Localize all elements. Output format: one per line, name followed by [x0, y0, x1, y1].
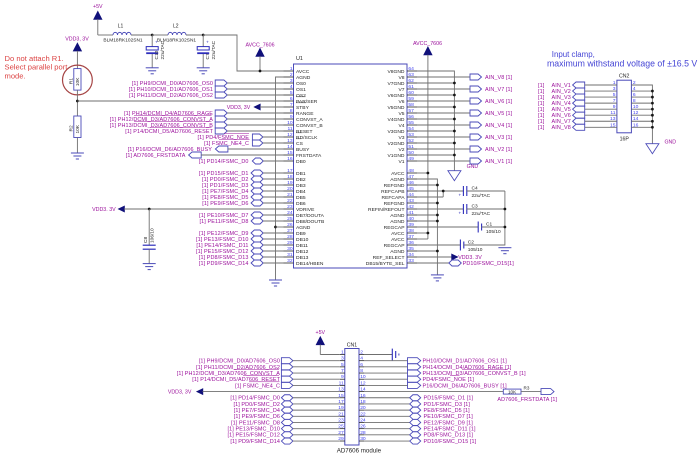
node junction GND rail row 155	[453, 154, 456, 157]
svg-text:DB0: DB0	[296, 159, 306, 165]
svg-text:V7GND: V7GND	[387, 81, 404, 87]
wire VxGND pin to GND rail (row 83)	[417, 82, 454, 84]
node junction cap rail C1	[504, 226, 507, 229]
svg-text:RD/SCLK: RD/SCLK	[296, 135, 318, 141]
annotation input clamp note	[547, 50, 697, 68]
svg-text:V4GND: V4GND	[387, 117, 404, 123]
U1 left pins section 1 names numbers stubs	[284, 66, 324, 165]
svg-text:PD10/FSMC_D15 [1]: PD10/FSMC_D15 [1]	[424, 439, 477, 445]
port PD10/FSMC_D15 (CN1 right side)	[364, 438, 477, 445]
svg-text:38: 38	[408, 228, 414, 234]
op-amp U1 AD7606 body	[294, 56, 408, 268]
svg-text:15: 15	[610, 122, 616, 128]
node junction CN2 GND rail pin 16	[651, 126, 654, 129]
node junction AVCC rail pin 38	[427, 232, 430, 235]
svg-text:[1] PE15/FSMC_D12: [1] PE15/FSMC_D12	[228, 433, 280, 439]
svg-text:DB10: DB10	[296, 237, 309, 243]
svg-text:52: 52	[408, 138, 414, 144]
svg-text:5: 5	[290, 90, 293, 96]
svg-text:56: 56	[408, 114, 414, 120]
svg-text:C3: C3	[472, 203, 478, 209]
port AD7606_FRSTDATA	[126, 152, 284, 159]
wire U1 pin 2 AGND to left ground rail	[276, 77, 284, 280]
svg-text:14: 14	[287, 144, 293, 150]
svg-text:V2GND: V2GND	[387, 141, 404, 147]
svg-text:L2: L2	[173, 24, 179, 30]
port PD10/FSMC_D15 (U1 side)	[417, 260, 514, 267]
power VDD3, 3V at CN1 pin 13	[168, 389, 340, 396]
wire CN2 right pins to GND rail	[631, 80, 652, 144]
ground at C8	[143, 264, 156, 270]
wire REFCAPB/REFCAPA tie to C4	[417, 191, 463, 197]
svg-text:4: 4	[633, 86, 636, 92]
svg-text:3: 3	[290, 78, 293, 84]
svg-text:DB9: DB9	[296, 231, 306, 237]
svg-text:41: 41	[408, 210, 414, 216]
wire right AGND rail (pins 47 46 43 41 40 35)	[417, 179, 437, 275]
CN1 pin stubs and numbers	[338, 350, 366, 443]
svg-text:FRSTDATA: FRSTDATA	[296, 153, 322, 159]
port AIN_V1 (CN2 side)	[538, 80, 617, 89]
inductor L1	[103, 24, 143, 44]
svg-text:VDRIVE: VDRIVE	[296, 207, 315, 213]
svg-text:53: 53	[408, 132, 414, 138]
svg-text:1: 1	[613, 80, 616, 86]
port AD7606_FRSTDATA (CN1 side)	[497, 389, 557, 403]
port AIN_V8 (CN2 side)	[538, 122, 617, 131]
svg-text:24: 24	[287, 210, 293, 216]
svg-text:CN2: CN2	[619, 74, 629, 80]
wire right cap ground rail	[504, 191, 506, 246]
svg-text:OS2: OS2	[296, 93, 306, 99]
svg-text:+5V: +5V	[93, 4, 103, 10]
svg-text:40: 40	[408, 216, 414, 222]
annotation red note text	[5, 54, 69, 81]
svg-text:V6GND: V6GND	[387, 93, 404, 99]
node junction AGND rail row 203	[436, 202, 439, 205]
svg-text:22u/TAC: 22u/TAC	[472, 193, 491, 199]
svg-text:43: 43	[408, 198, 414, 204]
svg-text:26: 26	[287, 222, 293, 228]
port AIN_V4 (CN2 side)	[538, 98, 617, 107]
port PH13/DCMI_D3/AD7606_CONVST_B (CN1 right side)	[364, 370, 526, 377]
power VDD3. 3V to REF_SELECT	[417, 254, 482, 261]
svg-text:14: 14	[633, 116, 639, 122]
port PE15/FSMC_D12	[196, 248, 283, 255]
svg-text:V8GND: V8GND	[387, 69, 404, 75]
port AIN_V7 (U1 side)	[417, 86, 513, 93]
port PE11/FSMC_D8 (CN1 side)	[231, 419, 340, 426]
port PE12/FSMC_D9	[199, 230, 283, 237]
wire VxGND pin to GND rail (row 131)	[417, 130, 454, 132]
capacitor C3 22u/TAC	[459, 203, 505, 217]
port PE9/FSMC_D6	[202, 200, 283, 207]
ground at cap rail	[498, 248, 511, 254]
ground at C7	[197, 68, 210, 74]
svg-text:15: 15	[287, 150, 293, 156]
svg-text:AVCC: AVCC	[296, 69, 310, 75]
port AIN_V1 (U1 side)	[417, 158, 513, 165]
svg-text:REFGND: REFGND	[384, 183, 405, 189]
capacitor C7 22u/TAC	[197, 35, 217, 68]
annotation overlines on active-low labels (CONVST RESET)	[134, 115, 212, 127]
wire VxGND pin to GND rail (row 119)	[417, 118, 454, 120]
port PH10/DCMI_D1/AD7606_OS1	[129, 86, 284, 93]
svg-text:DB4: DB4	[296, 189, 306, 195]
wire V8GND pin 64 to GND rail	[417, 71, 454, 171]
capacitor C10 22u/TAC	[146, 35, 166, 68]
svg-text:10K: 10K	[508, 389, 517, 394]
port PE10/FSMC_D7 (CN1 right side)	[364, 413, 473, 420]
svg-text:10K: 10K	[75, 77, 81, 86]
svg-text:DB13: DB13	[296, 255, 309, 261]
port P16/DCMI_D6/AD7606_BUSY	[128, 146, 284, 153]
node junction R1/R2/PAR-SER	[76, 100, 79, 103]
wire node to L2	[152, 34, 168, 36]
svg-text:DB8/DOUTB: DB8/DOUTB	[296, 219, 325, 225]
svg-text:DB15/BYTE_SEL: DB15/BYTE_SEL	[366, 261, 405, 267]
svg-text:C2: C2	[468, 239, 474, 245]
svg-text:C4: C4	[472, 185, 478, 191]
svg-text:V5GND: V5GND	[387, 105, 404, 111]
svg-text:10: 10	[633, 104, 639, 110]
svg-text:20: 20	[287, 186, 293, 192]
svg-text:6: 6	[360, 362, 363, 368]
svg-text:58: 58	[408, 102, 414, 108]
svg-text:39: 39	[408, 222, 414, 228]
svg-text:17: 17	[287, 168, 293, 174]
port PE13/FSMC_D10 (CN1 side)	[228, 426, 340, 433]
svg-text:[1] PE11/FSMC_D8: [1] PE11/FSMC_D8	[200, 219, 249, 225]
port PH9/DCMI_D0/AD7606_OS0 (CN1 side)	[199, 358, 340, 365]
port PD0/FSMC_D2 (CN1 side)	[233, 401, 339, 408]
svg-text:64: 64	[408, 66, 414, 72]
port AIN_V8 (U1 side)	[417, 74, 513, 81]
port PH12/DCMI_D3/AD7606_CONVST_A (CN1 side)	[177, 370, 340, 377]
svg-text:22u/TAC: 22u/TAC	[472, 211, 491, 217]
svg-text:18: 18	[287, 174, 293, 180]
svg-text:22: 22	[287, 198, 293, 204]
svg-text:R1: R1	[68, 78, 74, 84]
svg-text:60: 60	[408, 90, 414, 96]
svg-text:[1]: [1]	[538, 125, 545, 131]
svg-text:42: 42	[408, 204, 414, 210]
svg-text:[1] PH12/DCMI_D3/AD7606_CONVS: [1] PH12/DCMI_D3/AD7606_CONVST_A	[177, 371, 281, 377]
svg-text:2: 2	[360, 350, 363, 356]
power VDD3. 3V to VDRIVE	[92, 206, 283, 213]
svg-text:AGND: AGND	[390, 177, 405, 183]
svg-text:37: 37	[408, 234, 414, 240]
svg-text:OS1: OS1	[296, 87, 306, 93]
svg-text:5: 5	[613, 92, 616, 98]
svg-text:AIN_V6 [1]: AIN_V6 [1]	[485, 99, 513, 105]
svg-text:C7: C7	[205, 53, 211, 59]
svg-text:51: 51	[408, 144, 414, 150]
svg-text:AIN_V7 [1]: AIN_V7 [1]	[485, 87, 513, 93]
svg-text:AIN_V5 [1]: AIN_V5 [1]	[485, 111, 513, 117]
port PD14/FSMC_D0	[199, 158, 284, 165]
svg-text:[1] PD9/FSMC_D14: [1] PD9/FSMC_D14	[230, 439, 280, 445]
wire CN1 pin 14 to R3	[364, 391, 503, 393]
svg-text:C8: C8	[143, 237, 149, 243]
svg-text:PD15/FSMC_D1 [1]: PD15/FSMC_D1 [1]	[424, 396, 474, 402]
svg-text:V3GND: V3GND	[387, 129, 404, 135]
svg-text:7: 7	[341, 368, 344, 374]
svg-text:50: 50	[408, 150, 414, 156]
node junction AGND rail row 221	[436, 220, 439, 223]
node junction at C10	[151, 34, 154, 37]
wire VxGND pin to GND rail (row 155)	[417, 154, 454, 156]
port P16/DCMI_D6/AD7606_BUSY (CN1 right side)	[364, 382, 507, 389]
capacitor C4 22u/TAC	[459, 185, 505, 199]
svg-text:DB2: DB2	[296, 177, 306, 183]
svg-text:BLM18RK102SN1: BLM18RK102SN1	[157, 37, 197, 43]
svg-text:31: 31	[287, 252, 293, 258]
svg-text:[1] PE7/FSMC_D4: [1] PE7/FSMC_D4	[234, 408, 280, 414]
svg-text:REF_SELECT: REF_SELECT	[373, 255, 405, 261]
svg-text:9: 9	[613, 104, 616, 110]
port PD15/FSMC_D1 (CN1 right side)	[364, 395, 474, 402]
wire REFIN/REFOUT to C3	[417, 208, 463, 210]
svg-text:12: 12	[633, 110, 639, 116]
svg-text:GND: GND	[467, 164, 479, 170]
svg-text:PH10/DCMI_D1/AD7606_OS1 [1]: PH10/DCMI_D1/AD7606_OS1 [1]	[423, 359, 508, 365]
svg-text:36: 36	[408, 240, 414, 246]
svg-text:DB6: DB6	[296, 201, 306, 207]
port PD15/FSMC_D1	[199, 170, 284, 177]
svg-text:[1] AD7606_FRSTDATA: [1] AD7606_FRSTDATA	[126, 153, 186, 159]
svg-text:4: 4	[360, 356, 363, 362]
svg-text:V4: V4	[398, 123, 404, 129]
port PD4/FSMC_NOE	[198, 133, 284, 141]
svg-text:1: 1	[341, 350, 344, 356]
svg-text:61: 61	[408, 84, 414, 90]
svg-text:4: 4	[290, 84, 293, 90]
svg-text:19: 19	[287, 180, 293, 186]
svg-text:[1]: [1]	[508, 261, 515, 267]
svg-text:PE10/FSMC_D7 [1]: PE10/FSMC_D7 [1]	[424, 414, 474, 420]
port PD8/FSMC_D13 (CN1 right side)	[364, 432, 474, 439]
svg-text:54: 54	[408, 126, 414, 132]
svg-text:PH14/DCMI_D4/AD7606_RAGE [1]: PH14/DCMI_D4/AD7606_RAGE [1]	[423, 365, 512, 371]
svg-text:CONVST_B: CONVST_B	[296, 123, 323, 129]
svg-text:21: 21	[287, 192, 293, 198]
node junction CN2 GND rail pin 12	[651, 114, 654, 117]
port PE12/FSMC_D9 (CN1 right side)	[364, 419, 473, 426]
svg-text:45: 45	[408, 186, 414, 192]
svg-text:CONVST_A: CONVST_A	[296, 117, 323, 123]
connector CN2 16P body	[617, 74, 632, 143]
port PE15/FSMC_D12 (CN1 side)	[228, 432, 340, 439]
port PH14/DCMI_D4/AD7606_RAGE (CN1 right side)	[364, 364, 512, 371]
svg-text:RANGE: RANGE	[296, 111, 314, 117]
U1 left pins section 2 names numbers stubs	[284, 168, 325, 267]
svg-text:62: 62	[408, 78, 414, 84]
node junction GND rail row 119	[453, 118, 456, 121]
svg-text:CS: CS	[296, 141, 304, 147]
svg-text:V5: V5	[398, 111, 404, 117]
svg-text:6: 6	[633, 92, 636, 98]
node junction GND rail row 83	[453, 82, 456, 85]
wire L2 to node AVCC_7606	[186, 34, 203, 36]
node junction AGND rail row 185	[436, 184, 439, 187]
annotation overlines on CN1 left labels	[234, 369, 280, 381]
ground at C10	[146, 68, 159, 74]
svg-text:25: 25	[287, 216, 293, 222]
svg-text:BUSY: BUSY	[296, 147, 310, 153]
svg-text:[1] PD14/FSMC_D0: [1] PD14/FSMC_D0	[230, 396, 280, 402]
port PE14/FSMC_D11 (CN1 right side)	[364, 426, 476, 433]
port AIN_V3 (CN2 side)	[538, 92, 617, 101]
capacitor C1 105/10	[478, 221, 505, 235]
svg-text:30: 30	[287, 246, 293, 252]
svg-text:AIN_V4 [1]: AIN_V4 [1]	[485, 123, 513, 129]
svg-text:11: 11	[610, 110, 615, 116]
svg-text:PAR/SER: PAR/SER	[296, 99, 318, 105]
node junction AVCC rail pin 48	[427, 172, 430, 175]
port PD0/FSMC_D2	[202, 176, 284, 183]
node junction CN2 GND rail pin 10	[651, 108, 654, 111]
resistor R2 10K	[68, 116, 81, 138]
wire VxGND pin to GND rail (row 95)	[417, 94, 454, 96]
svg-text:105/10: 105/10	[486, 229, 501, 235]
wire R2 to ground	[76, 138, 78, 153]
svg-text:8: 8	[360, 368, 363, 374]
port AIN_V6 (U1 side)	[417, 98, 513, 105]
svg-text:V6: V6	[398, 99, 404, 105]
svg-text:PE12/FSMC_D9 [1]: PE12/FSMC_D9 [1]	[424, 420, 474, 426]
port PD14/FSMC_D0 (CN1 side)	[230, 395, 339, 402]
svg-text:U1: U1	[296, 56, 303, 62]
svg-text:GND: GND	[665, 140, 677, 146]
svg-text:9: 9	[290, 114, 293, 120]
svg-text:34: 34	[408, 252, 414, 258]
svg-text:Do not attach R1.: Do not attach R1.	[5, 54, 64, 63]
svg-text:AIN_V8: AIN_V8	[552, 125, 571, 131]
svg-text:10K: 10K	[75, 124, 81, 133]
svg-text:PH13/DCMI_D3/AD7606_CONVST_B: PH13/DCMI_D3/AD7606_CONVST_B [1]	[423, 371, 527, 377]
port PH9/DCMI_D0/AD7606_OS0	[132, 80, 284, 87]
svg-text:3: 3	[613, 86, 616, 92]
svg-text:AVCC_7606: AVCC_7606	[245, 42, 274, 48]
port AIN_V7 (CN2 side)	[538, 116, 617, 125]
svg-text:Select parallel port: Select parallel port	[5, 63, 69, 72]
svg-text:AD7606_FRSTDATA [1]: AD7606_FRSTDATA [1]	[497, 397, 557, 403]
ground at right AGND rail	[431, 275, 444, 281]
node junction AGND rail row 251	[436, 250, 439, 253]
svg-text:[1] PE13/FSMC_D10: [1] PE13/FSMC_D10	[228, 427, 280, 433]
power +5V (top filter input)	[93, 4, 103, 35]
svg-text:7: 7	[290, 102, 293, 108]
port PD4/FSMC_NOE (CN1 right side)	[364, 376, 474, 383]
wire REGCAP pin 39 to C1	[417, 226, 478, 228]
power VDD3, 3V (at R1)	[65, 37, 89, 69]
port AIN_V2 (CN2 side)	[538, 86, 617, 95]
ground GND triangle at CN2	[646, 140, 676, 154]
svg-text:AIN_V1 [1]: AIN_V1 [1]	[485, 159, 513, 165]
node junction CN2 GND rail pin 4	[651, 90, 654, 93]
svg-text:PE14/FSMC_D11 [1]: PE14/FSMC_D11 [1]	[424, 427, 476, 433]
wire +5V to L1	[98, 34, 113, 36]
svg-text:AIN_V2 [1]: AIN_V2 [1]	[485, 147, 513, 153]
svg-text:DB12: DB12	[296, 249, 309, 255]
svg-text:PD1/FSMC_D3 [1]: PD1/FSMC_D3 [1]	[424, 402, 471, 408]
resistor R3 10K	[503, 386, 530, 395]
svg-text:AVCC: AVCC	[391, 231, 405, 237]
wire PAR/SER net to U1 pin 6	[77, 100, 283, 102]
svg-text:PD8/FSMC_D13 [1]: PD8/FSMC_D13 [1]	[424, 433, 474, 439]
port PH10/DCMI_D1/AD7606_OS1 (CN1 right side)	[364, 358, 507, 365]
svg-text:[1] PE11/FSMC_D8: [1] PE11/FSMC_D8	[231, 420, 280, 426]
svg-text:CN1: CN1	[347, 343, 357, 349]
power AVCC_7606 (right)	[413, 41, 442, 55]
ground at R2	[71, 153, 84, 159]
svg-text:33: 33	[408, 258, 414, 264]
svg-text:AGND: AGND	[296, 225, 311, 231]
port PD1/FSMC_D3 (CN1 right side)	[364, 401, 470, 408]
capacitor at CN1 pin 2	[364, 349, 399, 361]
svg-text:V3: V3	[398, 135, 404, 141]
svg-text:C1: C1	[486, 221, 492, 227]
wire U1 AGND (pin 26) to rail	[276, 226, 284, 228]
node junction VDRIVE / C8	[148, 208, 151, 211]
wire L1 to node AVCC_FILT1	[131, 34, 152, 36]
resistor R1 10K (do not attach)	[68, 69, 81, 91]
svg-text:AGND: AGND	[296, 75, 311, 81]
power AVCC_7606 (left)	[245, 42, 274, 71]
svg-text:REFCAPA: REFCAPA	[382, 195, 406, 201]
annotation circle around R1	[63, 65, 93, 95]
port P14/DCMI_D5/AD7606_RESET (CN1 side)	[192, 376, 340, 383]
port PE8/FSMC_D5	[202, 194, 283, 201]
svg-text:+: +	[206, 40, 209, 45]
annotation overlines on CN1 right labels	[450, 369, 508, 375]
port PE8/FSMC_D5 (CN1 right side)	[364, 407, 470, 414]
svg-text:DB3: DB3	[296, 183, 306, 189]
svg-text:AD7606 module: AD7606 module	[337, 447, 382, 454]
svg-text:[1] PD14/FSMC_D0: [1] PD14/FSMC_D0	[199, 159, 249, 165]
port PD9/FSMC_D14 (CN1 side)	[230, 438, 339, 445]
node junction GND rail row 143	[453, 142, 456, 145]
svg-text:105/10: 105/10	[468, 247, 483, 253]
wire VxGND pin to GND rail (row 107)	[417, 106, 454, 108]
svg-text:PD10/FSMC_D15: PD10/FSMC_D15	[463, 261, 508, 267]
port AIN_V6 (CN2 side)	[538, 110, 617, 119]
svg-text:1: 1	[290, 66, 293, 72]
ground at left AGND rail	[269, 280, 282, 286]
svg-text:8: 8	[633, 98, 636, 104]
wire AVCC_7606 rail to pins 48 38 37	[417, 55, 428, 239]
port PE14/FSMC_D11	[196, 242, 283, 249]
svg-text:PD4/FSMC_NOE [1]: PD4/FSMC_NOE [1]	[423, 377, 475, 383]
svg-text:AVCC: AVCC	[391, 237, 405, 243]
svg-text:22u/TAC: 22u/TAC	[211, 40, 217, 59]
svg-text:DB7/DOUTA: DB7/DOUTA	[296, 213, 325, 219]
node junction CN2 GND rail pin 6	[651, 96, 654, 99]
wire AVCC net to U1 pin 1	[203, 35, 283, 71]
port PH14/DCMI_D4/AD7606_RAGE	[124, 110, 283, 117]
svg-text:10: 10	[287, 120, 293, 126]
svg-text:[1] PH11/DCMI_D2/AD7606_OS2: [1] PH11/DCMI_D2/AD7606_OS2	[196, 365, 280, 371]
port PE7/FSMC_D4	[202, 188, 283, 195]
svg-text:32: 32	[287, 258, 293, 264]
svg-text:2: 2	[290, 72, 293, 78]
svg-text:REFGND: REFGND	[384, 201, 405, 207]
node junction REFCAP tie	[442, 190, 445, 193]
svg-text:AVCC: AVCC	[391, 171, 405, 177]
wire REGCAP pin 36 to C2	[417, 244, 460, 246]
svg-text:6: 6	[290, 96, 293, 102]
